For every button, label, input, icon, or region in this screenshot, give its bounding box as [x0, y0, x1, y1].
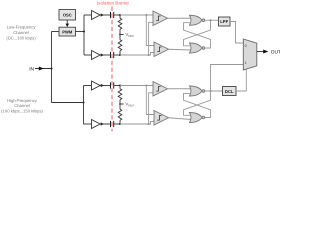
NOR gate G3: [190, 86, 205, 96]
wire splitter to buffer A3: [84, 85, 92, 87]
wire LPF to mux input 0: [230, 22, 243, 44]
modulator PWM box: [59, 27, 76, 36]
NOR gate G2: [190, 43, 205, 53]
wire G3 out cross to G4 input: [184, 91, 211, 115]
NOR gate G4: [190, 113, 205, 123]
wire buffer A1 to cap C1: [100, 14, 110, 16]
svg-text:High-Frequency: High-Frequency: [7, 98, 38, 103]
wire bus to HF splitter: [52, 102, 84, 104]
mux MUX: [243, 39, 256, 70]
comparator U1: [153, 11, 168, 26]
capacitor C2: [111, 52, 114, 58]
svg-text:0: 0: [245, 44, 247, 48]
wire bus to PWM input: [52, 31, 60, 33]
wire node D to comparator U4: [120, 122, 154, 125]
node G1 output junction: [210, 19, 212, 21]
wire splitter to buffer A2: [84, 54, 92, 56]
capacitor C3: [111, 82, 114, 88]
svg-text:1: 1: [245, 61, 247, 65]
wire PWM output to LF splitter: [76, 31, 85, 33]
wire DCL to mux select: [236, 69, 246, 91]
node D riser junction: [148, 123, 150, 125]
NOR gate G1: [190, 15, 205, 25]
wire cap C4 to node D: [114, 123, 120, 125]
svg-text:Isolation Barrier: Isolation Barrier: [97, 1, 130, 6]
node VREF tap LF: [120, 34, 124, 36]
comparator U2: [154, 42, 169, 57]
wire IN to bus: [35, 68, 52, 70]
resistor R4: [119, 104, 121, 109]
wire buffer A3 to cap C3: [100, 85, 110, 87]
wire node C to comparator U3: [120, 85, 153, 87]
node A riser junction: [145, 14, 147, 16]
wire G3 out up to mux input 1: [211, 65, 244, 92]
wire G3 output to DCL: [205, 90, 223, 92]
comparator U4: [154, 111, 169, 126]
wire U4 out to NOR G4: [169, 118, 192, 120]
svg-text:PWM: PWM: [62, 30, 73, 35]
buffer A4: [92, 120, 105, 129]
node LF splitter junction: [83, 31, 85, 33]
oscillator OSC box: [59, 10, 76, 21]
resistor R1: [119, 15, 121, 18]
svg-text:IN: IN: [29, 66, 34, 72]
node B junction: [119, 54, 121, 56]
node VREF tap HF: [120, 103, 124, 105]
wire splitter to buffer A4: [84, 123, 92, 125]
wire splitter to buffer A1: [84, 14, 92, 16]
svg-text:LPF: LPF: [220, 19, 228, 24]
comparator U3: [153, 82, 168, 97]
svg-text:OSC: OSC: [63, 13, 72, 18]
wire cap C3 to node C: [114, 85, 120, 87]
wire G1 output to LPF: [205, 19, 219, 21]
resistor R3: [119, 86, 121, 89]
svg-text:Channel: Channel: [13, 30, 29, 35]
node IN bus junction: [51, 68, 53, 70]
node G3 output junction: [210, 90, 212, 92]
svg-text:OUT: OUT: [271, 49, 280, 55]
node HF splitter junction: [83, 102, 85, 104]
wire U3 out to NOR G3: [168, 88, 192, 90]
wire node B up to U1 in-: [149, 22, 153, 55]
node C riser junction: [145, 85, 147, 87]
svg-text:Low-Frequency: Low-Frequency: [7, 25, 37, 30]
svg-text:Channel: Channel: [14, 103, 30, 108]
capacitor C4: [111, 121, 114, 127]
wire G2 out cross to G1 input: [184, 23, 211, 48]
buffer A1: [92, 11, 105, 20]
node C junction: [119, 85, 121, 87]
wire node A down to U2 in+: [146, 15, 154, 46]
wire cap C2 to node B: [114, 54, 120, 56]
svg-text:VREF: VREF: [125, 102, 134, 108]
capacitor C1: [111, 12, 114, 18]
wire OSC to PWM with arrow: [66, 20, 68, 24]
wire node A to comparator U1: [120, 14, 153, 16]
isolation barrier dashed line: [111, 7, 113, 132]
svg-text:(100 kbps...150 Mbps): (100 kbps...150 Mbps): [1, 109, 43, 114]
wire node C down to U4 in+: [146, 86, 154, 115]
arrowhead on IN wire: [39, 67, 44, 71]
node D junction: [119, 123, 121, 125]
wire buffer A4 to cap C4: [100, 123, 110, 125]
buffer A3: [92, 81, 105, 90]
filter LPF box: [219, 17, 231, 26]
wire HF splitter vertical: [83, 86, 85, 125]
svg-text:VREF: VREF: [125, 32, 134, 38]
wire U2 out to NOR G2: [169, 48, 192, 51]
wire node B to comparator U2: [120, 53, 154, 56]
wire node D up to U3 in-: [149, 93, 153, 124]
node A junction: [119, 14, 121, 16]
arrowhead OUT: [263, 50, 268, 54]
wire cap C1 to node A: [114, 14, 120, 16]
buffer A2: [92, 51, 105, 60]
wire U1 out to NOR G1: [168, 17, 192, 19]
wire LF splitter vertical: [83, 15, 85, 55]
svg-text:DCL: DCL: [225, 89, 234, 94]
wire buffer A2 to cap C2: [100, 54, 110, 56]
wire G4 out cross to G3 input: [184, 93, 211, 117]
decoder DCL box: [223, 87, 237, 96]
wire mux output: [257, 51, 264, 53]
wire input bus vertical: [51, 32, 53, 103]
node B riser junction: [148, 54, 150, 56]
resistor R2: [119, 35, 121, 40]
wire G1 out cross to G2 input: [184, 20, 211, 46]
svg-text:(DC...100 kbps): (DC...100 kbps): [6, 35, 36, 40]
